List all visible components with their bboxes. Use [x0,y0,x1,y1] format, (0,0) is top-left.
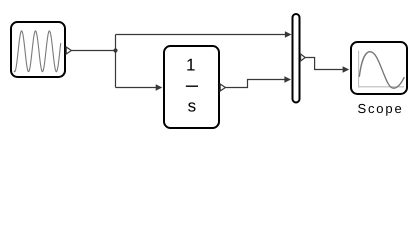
svg-text:s: s [188,96,197,115]
svg-text:Scope: Scope [357,101,403,116]
svg-text:1: 1 [186,56,195,75]
